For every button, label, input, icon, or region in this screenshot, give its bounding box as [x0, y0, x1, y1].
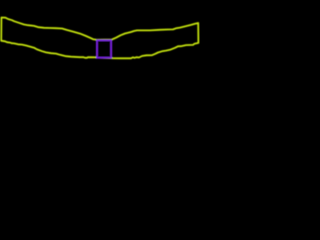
purple node marker square — [97, 40, 111, 58]
yellow band polygon outline — [1, 18, 198, 59]
